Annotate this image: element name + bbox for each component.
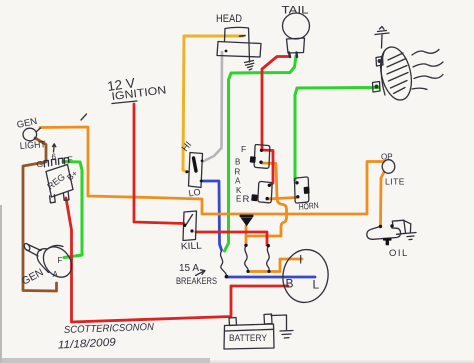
svg-text:HEAD: HEAD [216,13,242,25]
svg-text:B: B [235,158,240,167]
svg-text:OIL: OIL [389,248,409,259]
svg-text:KILL: KILL [181,240,203,252]
svg-text:LIGHT: LIGHT [19,139,46,152]
svg-text:F: F [68,155,73,165]
svg-text:A: A [235,177,241,186]
svg-text:F: F [58,256,63,265]
svg-text:BREAKERS: BREAKERS [176,276,217,287]
svg-text:15 A: 15 A [179,263,199,274]
svg-text:OP: OP [381,153,393,162]
svg-text:HORN: HORN [298,200,319,212]
svg-text:K: K [236,186,242,195]
svg-text:GEN: GEN [16,116,39,131]
svg-text:BATTERY: BATTERY [229,333,268,344]
svg-text:6: 6 [52,153,57,162]
svg-text:F: F [241,144,246,154]
svg-text:LITE: LITE [385,177,405,187]
svg-text:L: L [313,278,320,292]
svg-text:A: A [53,270,59,279]
svg-text:TAIL: TAIL [282,5,309,17]
svg-text:G: G [37,159,44,169]
svg-text:R: R [243,194,250,205]
svg-text:R: R [235,168,241,177]
svg-text:E: E [236,195,241,204]
svg-text:LO: LO [188,187,201,199]
svg-text:11/18/2009: 11/18/2009 [58,336,117,351]
svg-text:I: I [299,253,302,267]
svg-text:B+: B+ [65,168,80,183]
svg-text:SCOTTERICSONON: SCOTTERICSONON [64,322,155,336]
svg-text:B: B [286,277,294,291]
